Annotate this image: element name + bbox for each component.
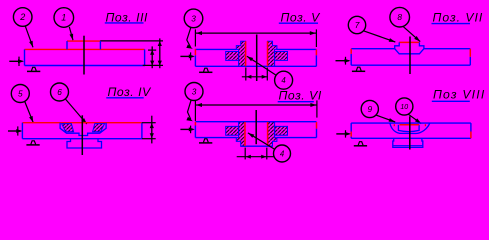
gap dimension extension lines (244, 148, 246, 160)
centerline (255, 110, 257, 144)
dimension line s1 (151, 46, 153, 68)
groove face left (red) (244, 122, 246, 146)
centerline (256, 35, 258, 82)
weld groove (395, 49, 424, 54)
gap dimension line (237, 156, 275, 158)
svg-text:10: 10 (400, 104, 408, 111)
marker circle 3 (185, 83, 203, 101)
svg-text:7: 7 (355, 20, 360, 30)
svg-text:4: 4 (280, 149, 285, 158)
top plate 2 with extension line (100, 40, 163, 42)
weld dish inner outline (398, 125, 419, 132)
marker circle 7 (348, 16, 365, 33)
leader to circle 2 (25, 26, 33, 47)
svg-text:Поз VIII: Поз VIII (433, 88, 485, 102)
dimension line s2 (159, 38, 161, 68)
tack weld left (red) (350, 49, 352, 54)
left extension line (194, 101, 196, 121)
thickness dimension line (151, 116, 153, 144)
weld shoe right (hatched) (268, 41, 277, 66)
weld shoe right (hatched) (268, 122, 277, 146)
welding direction arrow (336, 133, 349, 135)
welding direction arrow (180, 55, 193, 57)
svg-text:5: 5 (18, 88, 23, 98)
tack weld left (red) (194, 122, 196, 126)
centerline (81, 115, 83, 155)
main bar (Поз. VII) (351, 48, 395, 50)
svg-text:4: 4 (281, 76, 286, 85)
weld groove outline (60, 123, 106, 136)
bottom extension line (143, 64, 163, 66)
leader to circle 4 (247, 56, 276, 75)
weld metal left (hatched) (62, 124, 74, 132)
svg-text:1: 1 (61, 13, 66, 23)
right extension line (315, 29, 317, 47)
tick at bar top level (148, 49, 156, 51)
svg-text:9: 9 (367, 104, 372, 114)
backing strip (67, 139, 102, 148)
groove face left (red) (245, 41, 247, 66)
marker circle 1 (54, 8, 74, 28)
gap dimension line (242, 76, 268, 78)
svg-text:Поз. VII: Поз. VII (433, 11, 484, 25)
backing strip (393, 138, 423, 147)
marker circle 4 (275, 71, 293, 89)
right extension line (316, 100, 318, 117)
gap dimension extension lines (245, 68, 247, 81)
leader to circle 9 (376, 115, 395, 122)
main bar (Поз. III) (25, 48, 145, 50)
tack weld right (red) (316, 122, 318, 129)
leader to circle 7 (364, 31, 396, 42)
weld metal right (hatched) (93, 124, 105, 132)
support symbol (352, 70, 365, 72)
marker circle 3 (184, 9, 203, 28)
marker circle 2 (13, 8, 32, 27)
main bar (Поз. VI) (195, 121, 316, 123)
tack weld left (red) (194, 49, 196, 55)
svg-text:Поз. IV: Поз. IV (108, 85, 153, 99)
welding direction arrow (8, 130, 21, 132)
welding direction arrow (180, 128, 193, 130)
leader to circle 1 (69, 27, 73, 40)
tack weld left (red) (350, 132, 352, 137)
svg-text:3: 3 (191, 13, 196, 23)
red tick left (393, 124, 395, 126)
tack weld right (red) (470, 132, 472, 139)
weld dish outer outline (390, 123, 430, 133)
leader to circle 10 (408, 114, 421, 123)
leader to circle 8 (403, 27, 420, 42)
weld cap top (red) (399, 41, 419, 43)
tack weld right (red) (315, 49, 317, 55)
leader to circle 4 (248, 133, 274, 149)
groove face right (red) (267, 41, 269, 66)
centerline (409, 37, 411, 75)
marker circle 10 (396, 98, 413, 115)
weld shoe left (hatched) (236, 41, 245, 66)
tack weld right (red) (469, 49, 471, 57)
red tick right (424, 124, 426, 126)
svg-text:8: 8 (397, 12, 402, 22)
svg-text:Поз. VI: Поз. VI (279, 88, 322, 102)
left extension line (194, 29, 196, 46)
leader to circle 3 (187, 28, 191, 47)
weld shoe left (hatched) (236, 122, 245, 146)
marker circle 6 (51, 83, 69, 101)
marker circle 9 (361, 100, 378, 117)
overall dimension line (195, 104, 317, 106)
leader to circle 6 (65, 99, 87, 124)
groove face right (red) (267, 122, 269, 146)
leader to circle 5 (25, 101, 34, 122)
marker circle 4 (274, 145, 291, 162)
weld cap line (red) (400, 124, 420, 126)
support symbol (27, 70, 40, 72)
support symbol (199, 142, 212, 144)
svg-text:2: 2 (19, 12, 25, 22)
extension lines right (142, 122, 156, 124)
weld cap outline (395, 42, 400, 48)
centerline (409, 116, 411, 149)
main bar (Поз. V) (195, 48, 236, 50)
svg-text:3: 3 (192, 86, 197, 96)
support symbol (354, 145, 367, 147)
leader to circle 3 (188, 100, 192, 119)
svg-text:6: 6 (57, 87, 62, 97)
bottom closing line (241, 145, 273, 147)
main bar (Поз. VIII) (351, 122, 471, 124)
marker circle 8 (390, 7, 410, 27)
overall dimension line (195, 32, 316, 34)
welding direction arrow (336, 60, 350, 62)
top plate 1 (67, 40, 100, 42)
main bar (Поз. IV) (22, 122, 141, 124)
support symbol (199, 71, 212, 73)
support symbol (26, 144, 39, 146)
welding direction arrow (9, 60, 22, 62)
section line (83, 36, 85, 75)
marker circle 5 (11, 85, 29, 103)
